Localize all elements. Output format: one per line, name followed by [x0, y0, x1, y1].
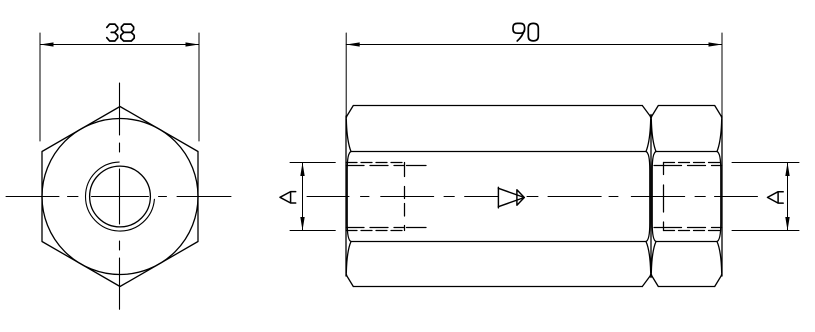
chamfer arcs body left end [346, 106, 353, 287]
chamfer arcs hex right end [715, 106, 722, 287]
hidden thread end line left [404, 163, 406, 231]
dim 90 arrowheads [346, 42, 722, 46]
check valve flow symbol [498, 187, 524, 208]
dim A left arrowheads [300, 163, 304, 231]
hex bottom edge [659, 286, 715, 288]
body top edge [354, 105, 643, 107]
bore continuation left [407, 166, 427, 228]
dim 90 extension lines [346, 33, 722, 116]
body left end face [345, 116, 347, 276]
chamfer arcs hex left end [651, 106, 658, 287]
dim text 38 [107, 24, 134, 41]
label A right (rotated) [768, 192, 784, 203]
dim 38 extension lines [40, 33, 199, 141]
body face lines [351, 152, 646, 242]
horizontal centerline (end view) [6, 196, 231, 198]
chamfer arcs body right end [642, 106, 651, 287]
hidden thread end line right [663, 163, 665, 231]
bore continuation right [654, 166, 664, 228]
thread major arc (3/4 circle) [86, 162, 155, 231]
dim A left extension lines [290, 163, 335, 231]
hidden thread major lines right [664, 163, 723, 231]
vertical centerline (end view) [119, 83, 121, 309]
hidden bore minor lines right [664, 166, 723, 228]
chamfer circle (across flats) [42, 119, 198, 275]
label A left (rotated) [280, 192, 296, 203]
dim 90 dimension line [346, 44, 722, 46]
hex right end face [721, 116, 723, 276]
dim 38 arrowheads [40, 42, 199, 46]
hex face lines [656, 152, 717, 242]
hidden thread major lines left [346, 163, 405, 231]
hidden bore minor lines left [346, 166, 405, 228]
centerline (side view) [307, 196, 758, 198]
dim A right dimension line [787, 163, 789, 231]
hex top edge [659, 105, 715, 107]
dim A right arrowheads [785, 163, 789, 231]
dim A left dimension line [302, 163, 304, 231]
bore circle (thread minor) [90, 166, 151, 227]
body bottom edge [354, 286, 643, 288]
dim text 90 [513, 23, 538, 41]
dim 38 dimension line [40, 44, 199, 46]
dim A right extension lines [732, 163, 799, 231]
hexagon outline (end view) [42, 107, 198, 287]
body / hex junction face [650, 115, 652, 278]
